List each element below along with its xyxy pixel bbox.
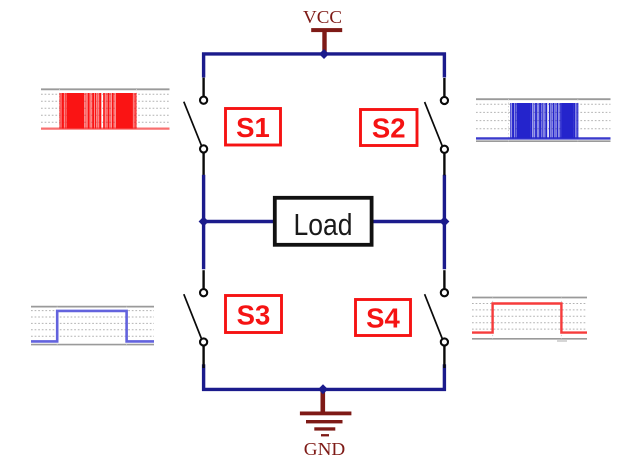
svg-text:S1: S1 bbox=[236, 112, 270, 143]
svg-text:Load: Load bbox=[294, 207, 353, 242]
svg-text:S2: S2 bbox=[372, 113, 406, 144]
svg-text:VCC: VCC bbox=[303, 7, 342, 27]
svg-text:GND: GND bbox=[304, 439, 346, 459]
svg-text:S3: S3 bbox=[237, 300, 271, 331]
svg-text:S4: S4 bbox=[366, 303, 400, 334]
